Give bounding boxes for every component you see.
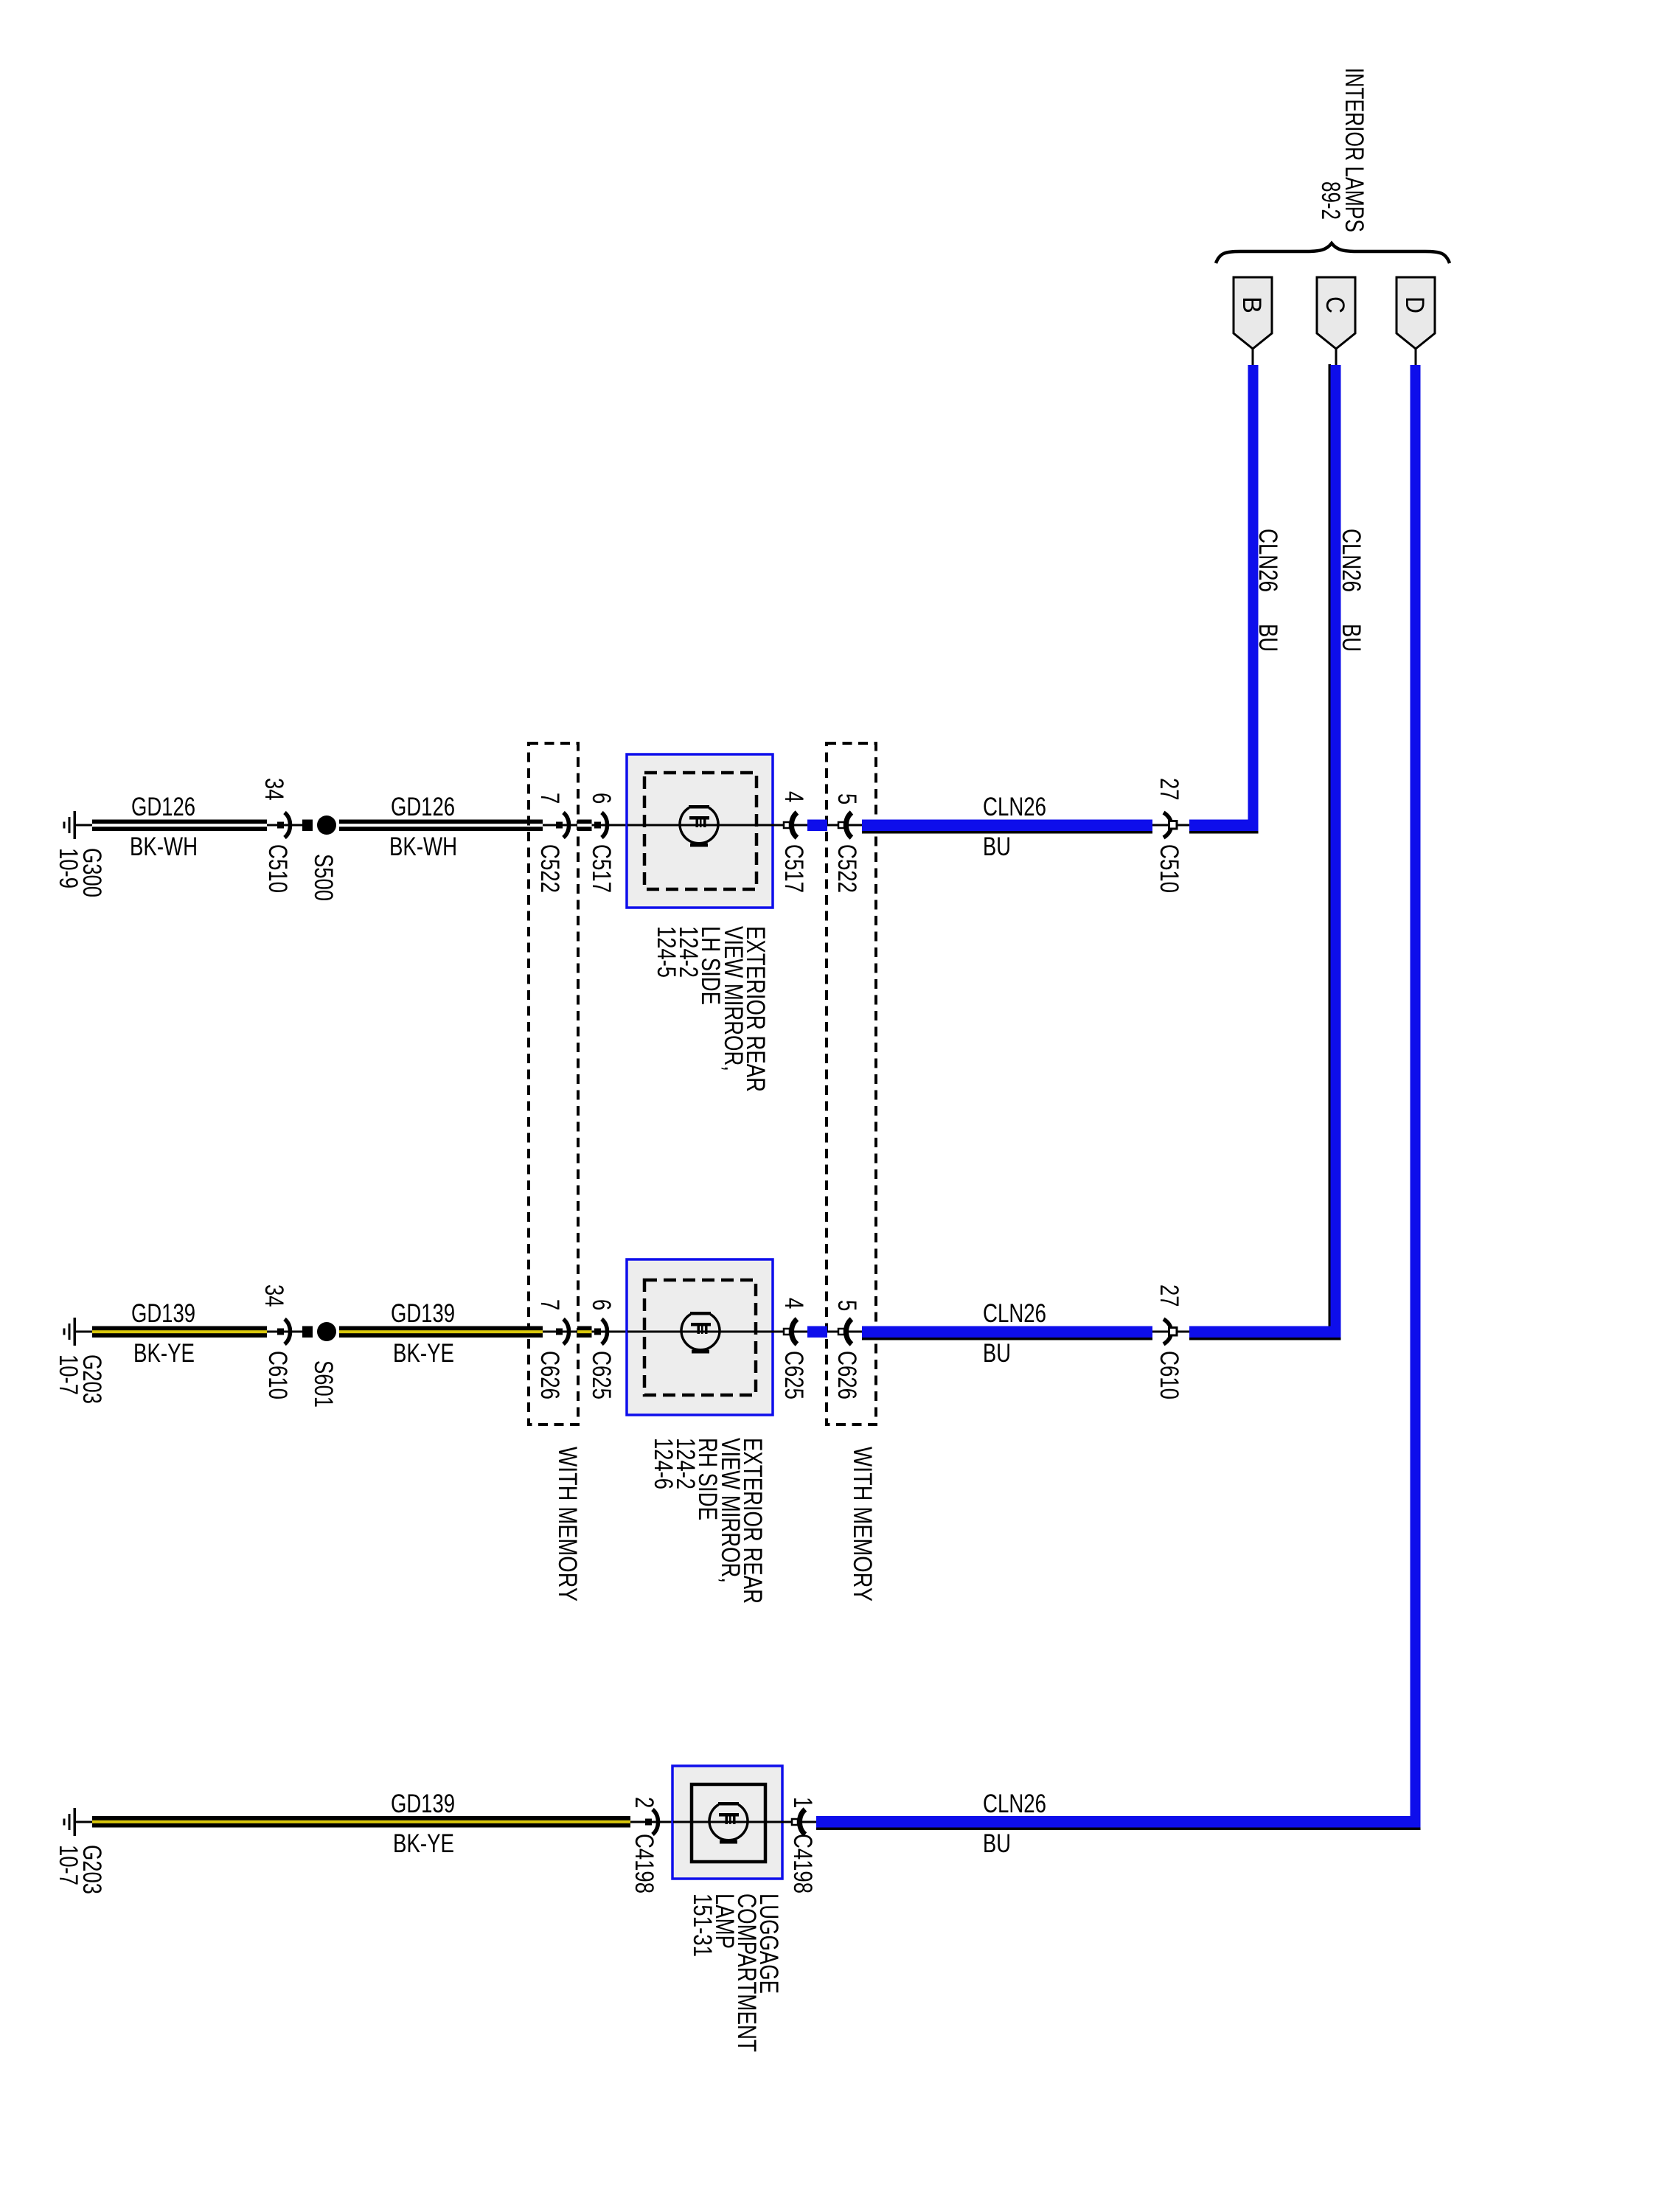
wire GD126 BK-WH segment 1 [92,820,267,832]
ground G300 [63,811,77,839]
svg-text:10-7: 10-7 [54,1354,83,1395]
svg-text:BU: BU [1337,624,1366,652]
connector tag C [1317,277,1355,349]
connector C626 pin 5 (male) [838,1319,852,1344]
svg-text:D: D [1400,296,1429,313]
svg-text:C510: C510 [263,844,292,893]
svg-text:C: C [1321,296,1349,313]
svg-text:BK-YE: BK-YE [393,1829,454,1858]
connector C517 pin 6 (female) [594,813,608,838]
svg-text:B: B [1237,296,1266,313]
connector C626 pin 7 (female) [556,1319,569,1344]
svg-text:1: 1 [788,1797,817,1808]
svg-text:6: 6 [587,1299,616,1310]
dashed option box right (WITH MEMORY) [827,743,876,1425]
connector C522 pin 5 (male) [838,813,852,838]
wire line row2 [74,1331,313,1333]
svg-text:4: 4 [779,1298,808,1309]
svg-text:CLN26: CLN26 [1337,529,1366,592]
wire GD126 BK-WH segment 2 [339,820,543,832]
wire GD139 BK-YE row3 [92,1816,630,1828]
lamp symbol RH mirror [627,1312,784,1354]
svg-text:C626: C626 [535,1351,564,1399]
connector C510 pin 27 (female) [1164,813,1177,838]
svg-text:5: 5 [832,1300,861,1311]
svg-text:CLN26: CLN26 [983,1299,1046,1328]
svg-text:34: 34 [260,1284,288,1307]
svg-text:C4198: C4198 [630,1834,658,1893]
svg-text:WITH MEMORY: WITH MEMORY [848,1447,877,1601]
component box LUGGAGE COMPARTMENT LAMP [672,1766,782,1879]
wire stub from C [1335,349,1338,366]
svg-text:C517: C517 [587,844,616,893]
svg-text:C625: C625 [779,1351,808,1399]
wire BK-WH short dash [577,820,592,832]
connector C625 pin 4 (male) [784,1319,797,1344]
svg-text:5: 5 [832,793,861,804]
wire GD139 BK-YE segment 2 [339,1326,543,1338]
svg-text:124-5: 124-5 [652,926,681,978]
svg-text:GD126: GD126 [391,793,455,821]
dashed option box left (WITH MEMORY) [529,743,578,1425]
component box EXTERIOR REAR VIEW MIRROR RH [627,1259,773,1415]
wire CLN26 BU row3 long blue [816,1816,1421,1830]
svg-text:C510: C510 [1155,844,1183,893]
svg-text:BK-WH: BK-WH [130,832,198,861]
svg-text:BU: BU [983,1339,1011,1368]
svg-text:CLN26: CLN26 [983,1790,1046,1818]
connector C4198 pin 1 (male) [792,1809,805,1834]
label LUGGAGE COMPARTMENT LAMP 151-31 [688,1893,783,2052]
svg-text:C625: C625 [587,1351,616,1399]
connector C610 pin 27 (female) [1164,1319,1177,1344]
svg-text:C4198: C4198 [788,1834,817,1893]
ground G203 row2 [63,1318,77,1346]
wire stub from D [1415,349,1417,366]
wire CLN26 BU row2 long blue [862,1326,1152,1340]
wire line row3 [74,1821,816,1823]
connector C4198 pin 2 (female) [645,1809,658,1834]
brace grouping B C D [1216,243,1450,263]
connector C625 pin 6 (female) [594,1319,608,1344]
component box EXTERIOR REAR VIEW MIRROR LH [627,754,773,908]
label EXTERIOR REAR VIEW MIRROR LH SIDE [652,926,770,1092]
connector C517 pin 4 (male) [784,813,797,838]
svg-text:4: 4 [779,791,808,802]
svg-text:WITH MEMORY: WITH MEMORY [553,1447,582,1601]
svg-text:BK-WH: BK-WH [389,832,457,861]
wire blue row1 to corner B [1189,820,1259,834]
svg-text:C626: C626 [832,1351,861,1399]
svg-text:GD139: GD139 [131,1299,195,1328]
wire stub from B [1252,349,1254,366]
connector tag B [1234,277,1272,349]
lamp symbol luggage [673,1802,792,1844]
svg-text:S500: S500 [309,854,338,901]
wire CLN26 BU vertical from D [1411,365,1421,1829]
svg-text:7: 7 [535,1299,564,1310]
svg-text:2: 2 [630,1797,658,1808]
svg-text:10-9: 10-9 [54,848,83,888]
wire blue row2 to corner C [1189,1326,1341,1340]
svg-text:151-31: 151-31 [688,1893,717,1957]
svg-text:6: 6 [587,793,616,804]
svg-text:89-2: 89-2 [1316,181,1345,220]
title INTERIOR LAMPS 89-2 [1316,68,1368,232]
wire CLN26 BU vertical from C [1329,364,1332,1339]
wire GD139 BK-YE segment 1 [92,1326,267,1338]
connector tag D [1397,277,1435,349]
svg-text:CLN26: CLN26 [983,793,1046,821]
svg-text:27: 27 [1155,778,1183,801]
svg-text:C517: C517 [779,844,808,893]
svg-text:GD126: GD126 [131,793,195,821]
connector C610 pin 34 (female) [277,1319,291,1344]
svg-text:BK-YE: BK-YE [393,1339,454,1368]
svg-text:10-7: 10-7 [54,1845,83,1885]
svg-text:BK-YE: BK-YE [133,1339,195,1368]
ground G203 row3 [63,1808,77,1836]
lamp symbol LH mirror [627,805,784,847]
svg-text:C610: C610 [1155,1351,1183,1399]
svg-text:C522: C522 [832,844,861,893]
connector C522 pin 7 (female) [556,813,569,838]
svg-text:GD139: GD139 [391,1790,455,1818]
connector C510 pin 34 (female) [277,813,291,838]
svg-text:34: 34 [260,778,288,801]
svg-text:124-6: 124-6 [649,1438,678,1489]
wire line row1 [74,824,313,827]
wire BK-YE short dash [577,1326,592,1338]
splice S500 [302,815,336,835]
svg-text:CLN26: CLN26 [1253,529,1282,592]
svg-text:GD139: GD139 [391,1299,455,1328]
svg-text:C522: C522 [535,844,564,893]
svg-text:C610: C610 [263,1351,292,1399]
svg-text:BU: BU [983,1829,1011,1858]
wire CLN26 BU row1 long blue [862,820,1152,834]
splice S601 [302,1322,336,1341]
svg-text:7: 7 [535,793,564,804]
label EXTERIOR REAR VIEW MIRROR RH SIDE [649,1438,767,1604]
svg-text:BU: BU [1253,624,1282,652]
svg-text:27: 27 [1155,1284,1183,1307]
wire CLN26 short blue dash row2 [807,1326,827,1338]
wire CLN26 BU vertical from B [1248,365,1259,832]
svg-text:BU: BU [983,832,1011,861]
wire CLN26 short blue dash row1 [807,820,827,832]
svg-text:S601: S601 [309,1360,338,1408]
